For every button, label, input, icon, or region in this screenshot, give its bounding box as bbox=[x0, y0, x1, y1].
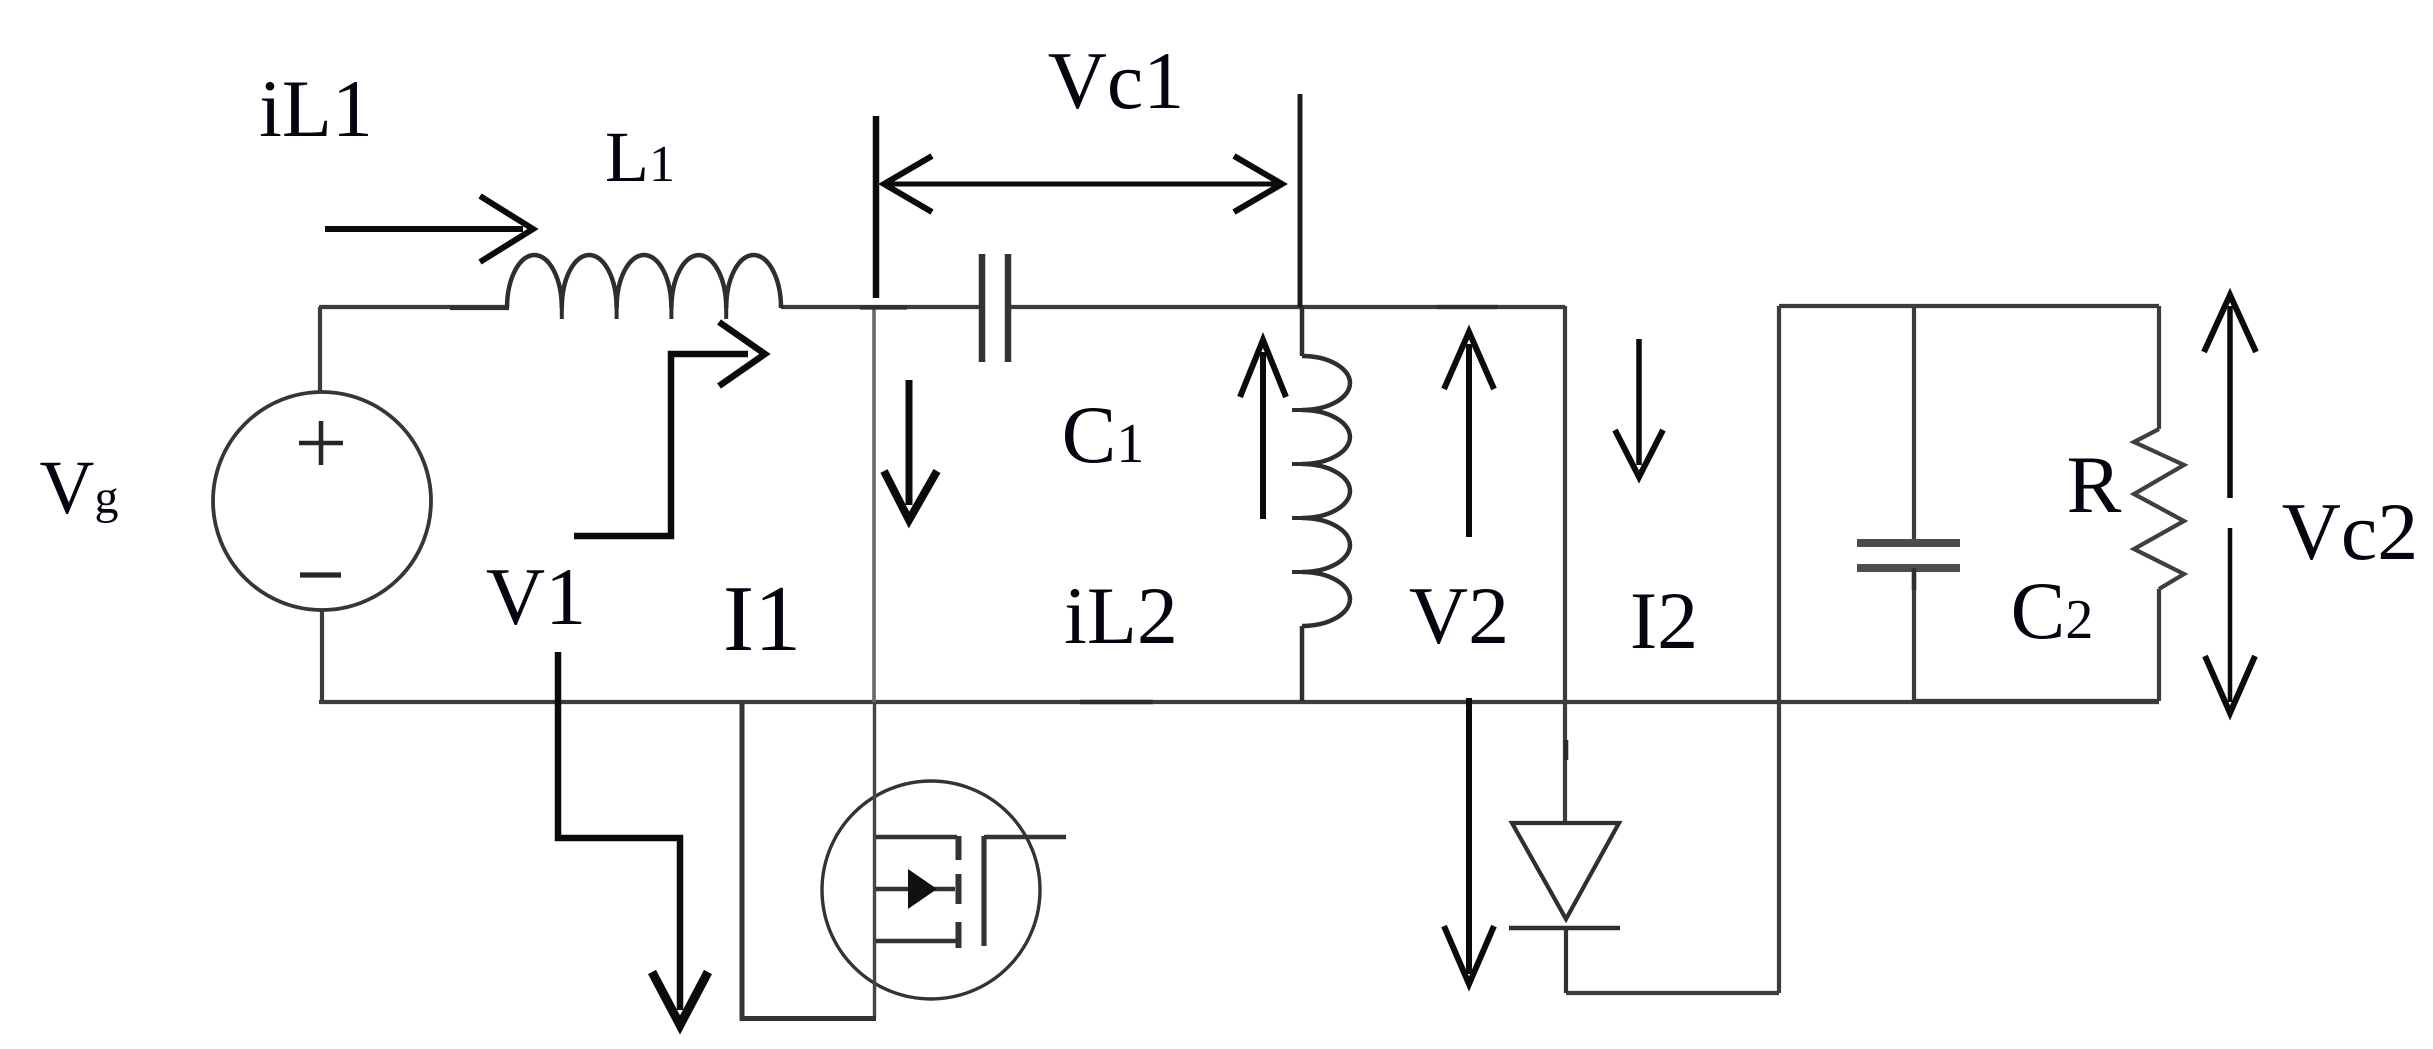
svg-text:R: R bbox=[2067, 439, 2122, 530]
svg-text:I1: I1 bbox=[723, 567, 801, 671]
svg-text:Vc1: Vc1 bbox=[1048, 35, 1185, 126]
svg-text:V1: V1 bbox=[486, 551, 586, 642]
svg-text:I2: I2 bbox=[1630, 575, 1698, 666]
svg-text:iL1: iL1 bbox=[259, 63, 373, 154]
svg-text:iL2: iL2 bbox=[1064, 570, 1178, 661]
svg-text:V2: V2 bbox=[1409, 570, 1509, 661]
svg-text:Vc2: Vc2 bbox=[2282, 486, 2419, 577]
